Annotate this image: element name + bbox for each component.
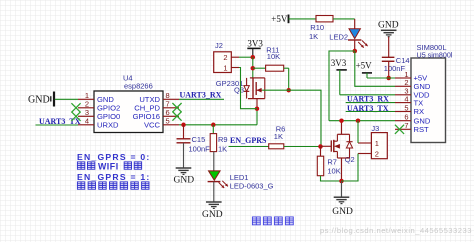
U4 pin 7 CH_PD bbox=[163, 107, 179, 109]
wire VCC riser to node bbox=[256, 109, 258, 125]
svg-text:5: 5 bbox=[404, 103, 408, 112]
LED1 top lead bbox=[213, 152, 215, 171]
wire UART3_RX to SIM800L TX bbox=[346, 102, 395, 104]
IC U4 esp8266 body bbox=[94, 91, 163, 133]
U5 pin 2 GND bbox=[395, 85, 411, 87]
U4 pin 4 URXD bbox=[78, 124, 94, 126]
svg-text:LED-0603_G: LED-0603_G bbox=[230, 181, 274, 190]
junction R11 tap bbox=[251, 66, 256, 71]
wire J2 pin2 to 3V3 node bbox=[239, 56, 253, 58]
resistor R6 1K bbox=[269, 144, 284, 149]
wire +5V to SIM800L pin1 bbox=[367, 77, 395, 79]
resistor R9 top lead bbox=[212, 125, 214, 134]
junction gate node bbox=[318, 144, 323, 149]
C15 bottom lead bbox=[183, 143, 185, 168]
svg-text:R10: R10 bbox=[310, 23, 324, 32]
svg-text:GND: GND bbox=[332, 207, 353, 217]
LED1 emission arrows bbox=[219, 182, 225, 188]
svg-text:10K: 10K bbox=[327, 167, 340, 176]
svg-text:5: 5 bbox=[166, 117, 170, 126]
module U5 SIM800L body bbox=[411, 58, 446, 143]
LED2 bottom lead bbox=[354, 40, 356, 51]
U4 pin 1 GND bbox=[78, 98, 94, 100]
J3 pin 1 bbox=[358, 142, 371, 144]
svg-text:1: 1 bbox=[375, 139, 379, 148]
LED1 bottom lead bbox=[213, 182, 215, 202]
ground below Q2 bbox=[341, 181, 343, 197]
wire LED2 down to SIM800L pin2 bbox=[355, 51, 395, 86]
U4 pin 2 GPIO2 bbox=[78, 107, 94, 109]
svg-text:GND: GND bbox=[28, 95, 50, 106]
wire R10 to LED2 bbox=[333, 18, 355, 20]
wire 3V3 node down bbox=[252, 57, 254, 78]
no-connect X on U4 pin 2 bbox=[71, 103, 80, 112]
junction R11/gate line bbox=[286, 88, 291, 93]
junction GND rail / J3 pin1 bbox=[356, 118, 361, 123]
svg-text:ps://blog.csdn.net/weixin_4456: ps://blog.csdn.net/weixin_44565533233 bbox=[320, 226, 472, 235]
connector J3 bbox=[371, 133, 387, 159]
svg-text:1K: 1K bbox=[218, 144, 227, 153]
svg-text:7: 7 bbox=[404, 121, 408, 130]
LED LED1 bbox=[209, 171, 221, 180]
resistor R11 10K bbox=[266, 65, 284, 71]
wire VCC rail from U4 pin 5 bbox=[179, 124, 257, 126]
svg-text:GND: GND bbox=[174, 176, 195, 186]
svg-text:LED2: LED2 bbox=[329, 32, 348, 41]
svg-text:1: 1 bbox=[223, 64, 227, 73]
svg-text:100nF: 100nF bbox=[189, 145, 211, 154]
caption 通讯模块 (communication module) bbox=[252, 217, 260, 225]
U5 pin 5 RX bbox=[395, 111, 411, 113]
svg-text:1K: 1K bbox=[274, 132, 283, 141]
Q2 drain lead up bbox=[341, 121, 343, 135]
svg-text:J2: J2 bbox=[215, 41, 223, 50]
U4 pin 5 VCC bbox=[163, 124, 179, 126]
svg-text:100nF: 100nF bbox=[384, 64, 406, 73]
svg-text:U5 sim800l: U5 sim800l bbox=[417, 50, 453, 59]
ground below LED1 bbox=[206, 201, 222, 203]
wire to R11 bbox=[253, 67, 266, 69]
svg-text:UART3_RX: UART3_RX bbox=[180, 90, 222, 99]
wire GND to U4 pin 1 bbox=[55, 98, 78, 100]
svg-text:GND: GND bbox=[202, 210, 223, 220]
no-connect X on U5 pin 7 RST bbox=[395, 125, 404, 134]
junction VCC-C15 bbox=[181, 123, 186, 128]
svg-text:VCC: VCC bbox=[144, 120, 161, 129]
U5 pin 1 +5V bbox=[395, 77, 411, 79]
wire EN_GPRS to R6 bbox=[229, 146, 269, 148]
C14 bottom lead bbox=[388, 61, 390, 78]
Q2 source lead down bbox=[341, 158, 343, 181]
wire UART3_TX to SIM800L RX bbox=[346, 111, 395, 113]
no-connect X on U4 pin 6 bbox=[172, 112, 181, 121]
wire J3 pin1 up to GND rail bbox=[357, 121, 359, 143]
svg-text:10K: 10K bbox=[267, 52, 280, 61]
wire Q3 gate line to Q2 area bbox=[262, 90, 321, 146]
wire 3V3 to SIM800L VDD bbox=[340, 94, 395, 96]
resistor R9 1K bbox=[210, 134, 216, 152]
R11 right lead down to gate line bbox=[284, 67, 289, 69]
junction Q3/J2/VCC bbox=[255, 106, 260, 111]
Q3 drain lead to node bbox=[256, 99, 258, 109]
svg-text:R9: R9 bbox=[218, 135, 228, 144]
wire +5V to R10 bbox=[289, 18, 317, 20]
svg-text:EN_GPRS = 1:: EN_GPRS = 1: bbox=[77, 172, 151, 182]
svg-text:EN_GPRS: EN_GPRS bbox=[230, 136, 267, 145]
U5 pin 4 TX bbox=[395, 102, 411, 104]
svg-text:Q3: Q3 bbox=[234, 85, 244, 94]
wire U4 pin 8 UTXD bbox=[179, 98, 224, 100]
ground below C15 bbox=[176, 167, 192, 169]
svg-text:4: 4 bbox=[85, 117, 89, 126]
resistor R10 1K bbox=[316, 16, 333, 22]
connector J2 bbox=[214, 52, 232, 73]
U4 pin 6 GPIO16 bbox=[163, 115, 179, 117]
svg-text:WIFI: WIFI bbox=[98, 162, 119, 172]
J2 pin 1 bbox=[231, 67, 239, 69]
no-connect X on U4 pin 7 bbox=[172, 103, 181, 112]
junction 3V3/J2 bbox=[251, 55, 256, 60]
svg-text:GND: GND bbox=[378, 21, 399, 31]
capacitor C15 bbox=[177, 138, 191, 140]
svg-text:J3: J3 bbox=[371, 124, 379, 133]
junction R7/Q2/J3/GND bbox=[339, 179, 344, 184]
U5 pin 3 VDD bbox=[395, 94, 411, 96]
U5 pin 7 RST bbox=[395, 128, 411, 130]
junction LED2 bbox=[353, 49, 358, 54]
svg-text:esp8266: esp8266 bbox=[124, 82, 153, 91]
U5 pin 6 GND bbox=[395, 120, 411, 122]
J3 pin 2 bbox=[358, 153, 371, 155]
svg-text:RX: RX bbox=[414, 107, 425, 116]
resistor R7 10K bbox=[317, 156, 323, 176]
R7 bottom lead bbox=[321, 176, 342, 181]
wire J3 pin2 down to GND node bbox=[342, 154, 359, 182]
U4 pin 3 GPIO0 bbox=[78, 115, 94, 117]
wire UART3_TX to U4 pin 4 bbox=[36, 124, 79, 126]
note select WIFI network bbox=[77, 162, 84, 169]
junction C14/+5V wire bbox=[386, 76, 391, 81]
svg-text:2: 2 bbox=[223, 53, 227, 62]
capacitor C15 top lead bbox=[183, 125, 185, 139]
svg-text:3V3: 3V3 bbox=[331, 58, 347, 68]
svg-text:2: 2 bbox=[375, 150, 379, 159]
note select carrier network bbox=[77, 182, 84, 189]
svg-text:4: 4 bbox=[404, 94, 408, 103]
wire LED2 to left rail bbox=[329, 51, 355, 121]
svg-text:1K: 1K bbox=[309, 32, 318, 41]
junction VCC-R9 bbox=[211, 123, 216, 128]
capacitor C14 bbox=[382, 56, 395, 58]
svg-text:+5V: +5V bbox=[271, 14, 288, 24]
svg-text:C15: C15 bbox=[192, 135, 206, 144]
svg-text:+5V: +5V bbox=[356, 61, 373, 71]
LED2 emission arrows bbox=[358, 42, 364, 48]
wire J2 pin1 down to node bbox=[239, 68, 257, 109]
U4 pin 8 UTXD bbox=[163, 98, 179, 100]
svg-text:TX: TX bbox=[414, 98, 424, 107]
svg-text:3V3: 3V3 bbox=[247, 39, 263, 49]
wire GND rail to SIM800L pin6 bbox=[329, 120, 395, 122]
svg-text:R7: R7 bbox=[327, 157, 337, 166]
svg-text:URXD: URXD bbox=[97, 120, 119, 129]
C14 top lead bbox=[388, 37, 390, 57]
svg-text:RST: RST bbox=[414, 125, 430, 134]
wire R6 to gate junction bbox=[284, 146, 321, 148]
J2 pin 2 bbox=[231, 56, 239, 58]
R7 top lead bbox=[320, 147, 322, 157]
no-connect X on U4 pin 3 bbox=[71, 112, 80, 121]
junction GND rail / Q2 drain bbox=[339, 118, 344, 123]
